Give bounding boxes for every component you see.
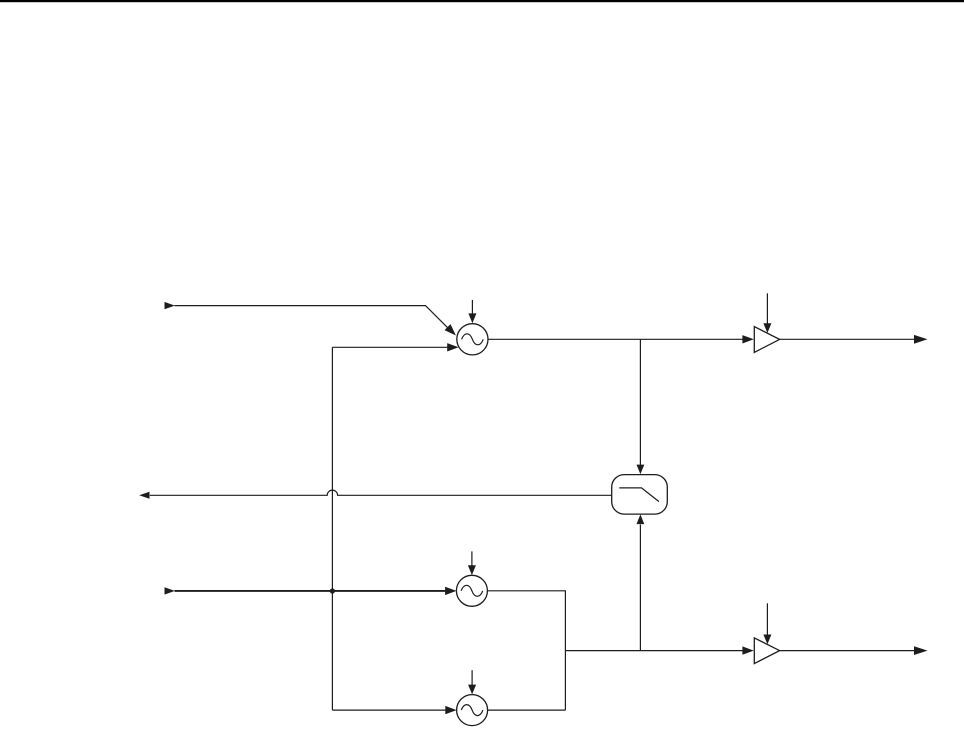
terminal arrow OUT1 [914,335,928,344]
wire branch up to FL1 bottom [639,525,641,651]
filter FL1 low-pass curve [619,488,659,502]
wire IN1 to mixer U1 [175,306,450,330]
control arrow into U3 top [471,670,473,686]
sine symbol in U3 [461,705,483,716]
terminal arrow OUT2 [914,646,928,655]
arrowhead into U1 left [447,343,458,351]
control arrow into A2 [766,603,768,635]
input arrow IN1 [165,302,175,309]
wire U1 output to A1 [488,338,744,340]
junction dot on bus [330,588,335,593]
wire bus down to bottom corner [564,651,566,711]
arrowhead into FL1 bottom [637,514,645,524]
mixer U1 [457,324,488,355]
sine symbol in U1 [462,334,484,345]
input arrow IN2 [165,587,175,594]
arrowhead into FL1 top [637,465,645,475]
mixer U2 [456,575,487,606]
sine symbol in U2 [461,585,483,596]
control arrow into A1 [766,293,768,324]
filter FL1 box [612,475,668,514]
arrowhead into A2 [742,646,753,654]
wire FL1 output to left with hop over bus [150,490,612,495]
control arrow into U1 top [471,300,473,315]
terminal arrow OUT3 (left) [139,492,149,499]
wire U3 output to bus [488,709,566,711]
amplifier A2 [754,638,779,664]
arrowhead into A1 [742,335,753,343]
wire A1 output [780,338,915,340]
control arrow into U2 top [471,551,473,566]
wire branch down to filter FL1 top [639,339,641,465]
wire bus corner to U3 input [332,709,446,711]
wire U2 output right then down [487,591,565,651]
arrowhead into U1 upper-left [445,324,456,335]
page top rule [0,0,964,2]
wire A2 output [780,650,915,652]
wire bus to U1 left input [332,346,448,348]
vertical bus wire [331,347,333,710]
wire IN2 to mixer U2 (bold) [175,590,447,592]
wire to amplifier A2 [565,650,744,652]
oscillator U3 [457,695,488,726]
arrowhead into U3 [445,706,456,714]
arrowhead into U2 [445,587,456,595]
amplifier A1 [754,327,779,353]
